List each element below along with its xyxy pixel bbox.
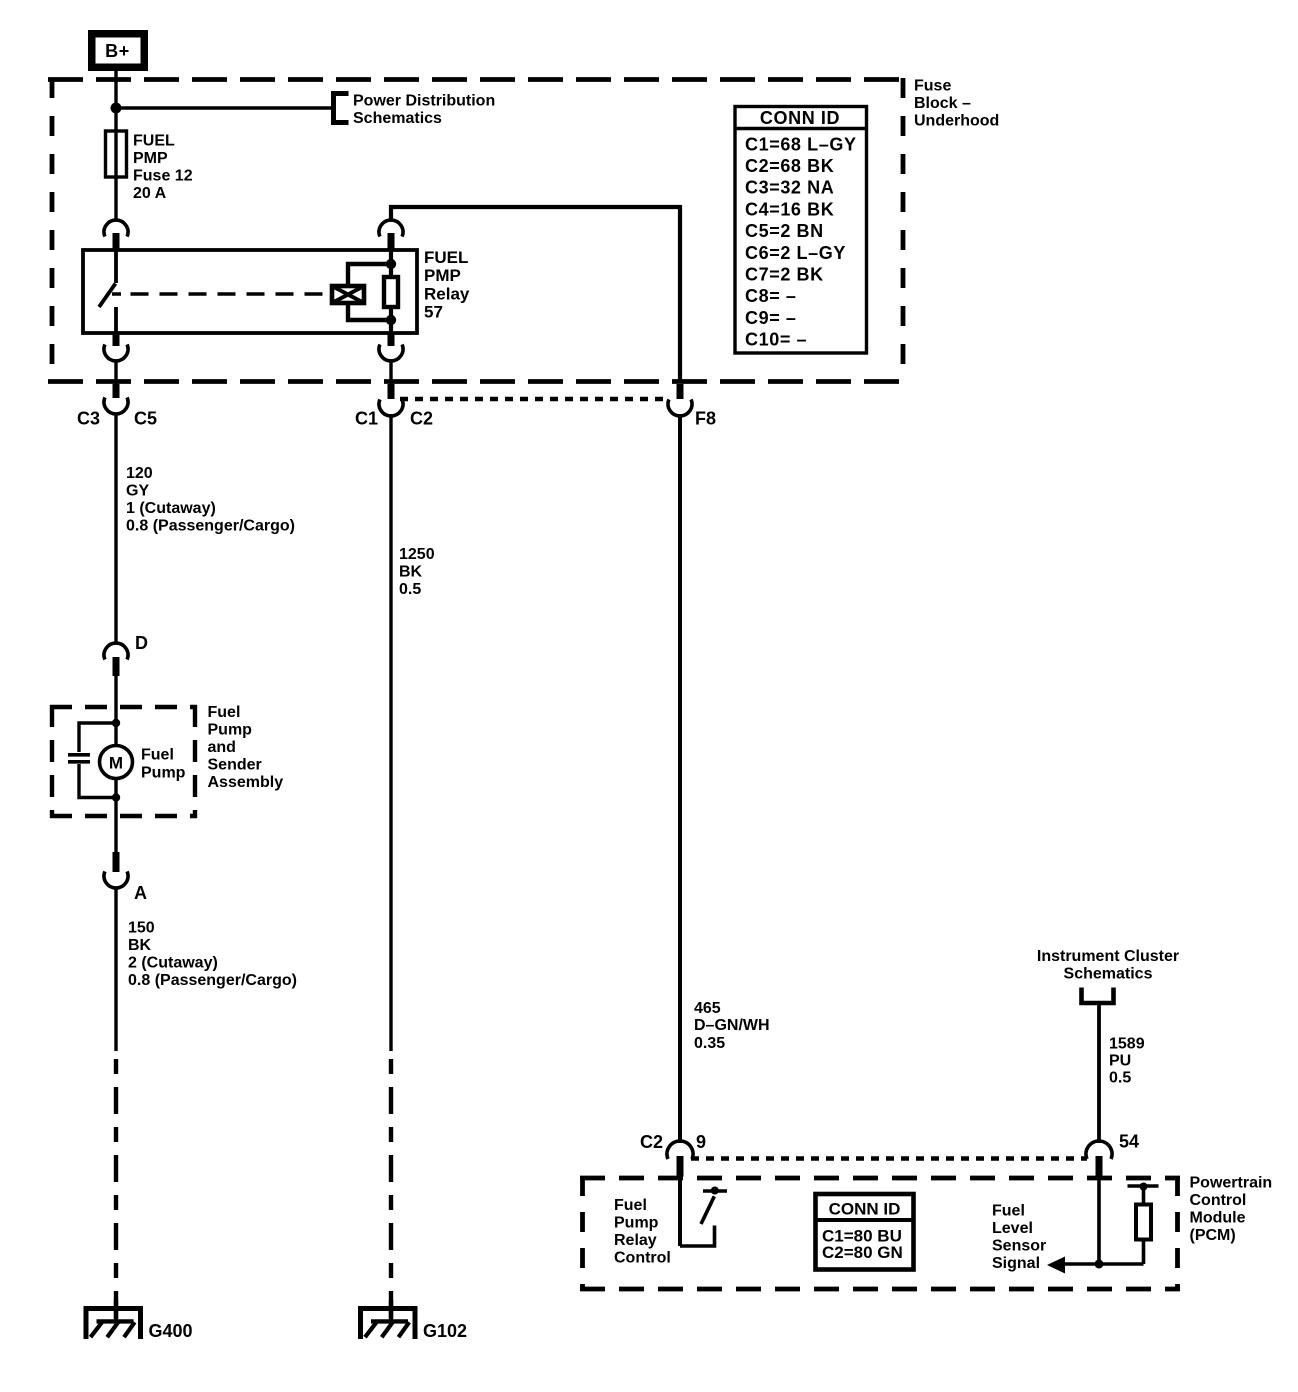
svg-text:C4=16 BK: C4=16 BK (745, 200, 834, 220)
fuse FUEL PMP Fuse 12 20A (106, 131, 127, 177)
svg-text:Fuel: Fuel (208, 704, 241, 721)
svg-text:C10= –: C10= – (745, 330, 807, 350)
svg-text:20 A: 20 A (133, 185, 167, 202)
svg-text:2 (Cutaway): 2 (Cutaway) (128, 955, 218, 972)
fuel pump and sender assembly dashed box (50, 705, 197, 818)
svg-text:Sensor: Sensor (992, 1238, 1046, 1255)
svg-text:C1=68 L–GY: C1=68 L–GY (745, 135, 857, 155)
svg-text:1250: 1250 (399, 546, 435, 563)
bracket power distribution (334, 94, 349, 123)
node pump top (112, 719, 120, 727)
svg-text:150: 150 (128, 920, 155, 937)
PCM driver switch symbol (678, 1176, 682, 1246)
svg-text:9: 9 (696, 1132, 706, 1152)
svg-text:Relay: Relay (424, 285, 470, 304)
CONN ID table fuse block (735, 107, 867, 354)
relay switch contact (114, 250, 118, 283)
svg-text:465: 465 (694, 1000, 721, 1017)
svg-text:Module: Module (1190, 1210, 1246, 1227)
relay internal resistor (384, 277, 398, 307)
svg-text:GY: GY (126, 483, 149, 500)
node coil top (386, 259, 396, 269)
node junction at power feed (111, 103, 122, 114)
svg-text:Schematics: Schematics (1064, 966, 1153, 983)
svg-text:Fuel: Fuel (992, 1203, 1025, 1220)
svg-text:0.8 (Passenger/Cargo): 0.8 (Passenger/Cargo) (126, 518, 295, 535)
connector F8 (677, 384, 684, 399)
svg-text:B+: B+ (105, 41, 130, 61)
svg-text:Signal: Signal (992, 1255, 1040, 1272)
svg-text:54: 54 (1119, 1132, 1139, 1152)
svg-text:A: A (134, 883, 147, 903)
battery terminal B+ (88, 30, 148, 71)
svg-text:C9= –: C9= – (745, 308, 797, 328)
svg-text:Control: Control (614, 1250, 671, 1267)
fuse block underhood dashed box (48, 78, 903, 382)
node signal junction (1095, 1260, 1104, 1269)
node pump bottom (112, 793, 120, 801)
svg-text:C5=2 BN: C5=2 BN (745, 221, 824, 241)
svg-text:BK: BK (399, 564, 423, 581)
svg-text:and: and (208, 739, 236, 756)
wire inside pump box (114, 723, 117, 746)
relay coil box with X (332, 286, 364, 303)
svg-text:0.5: 0.5 (399, 581, 421, 598)
svg-text:1589: 1589 (1109, 1036, 1145, 1053)
svg-text:(PCM): (PCM) (1190, 1227, 1236, 1244)
svg-text:C2=80 GN: C2=80 GN (822, 1243, 903, 1262)
svg-text:C2: C2 (640, 1132, 663, 1152)
wire C5 down to D (114, 414, 117, 643)
connector 54 into PCM (1086, 1141, 1112, 1159)
svg-text:Pump: Pump (208, 722, 253, 739)
wire A down solid (114, 888, 117, 1051)
svg-text:FUEL: FUEL (424, 248, 468, 267)
svg-text:D: D (135, 633, 148, 653)
dotted connector line C2 to F8 (400, 397, 667, 401)
svg-text:M: M (109, 754, 123, 773)
signal horizontal wire with arrow (1060, 1262, 1144, 1266)
ground G400 (84, 1306, 144, 1339)
connector C3/C5 (113, 384, 120, 398)
svg-text:C6=2 L–GY: C6=2 L–GY (745, 243, 846, 263)
svg-text:PMP: PMP (133, 150, 168, 167)
svg-text:1 (Cutaway): 1 (Cutaway) (126, 500, 216, 517)
driver blade (701, 1196, 714, 1224)
svg-text:Fuel: Fuel (141, 747, 174, 764)
capacitor branch (79, 723, 116, 752)
svg-text:0.8 (Passenger/Cargo): 0.8 (Passenger/Cargo) (128, 972, 297, 989)
svg-text:Pump: Pump (141, 765, 186, 782)
wire A down dashed to G400 (114, 1059, 118, 1321)
wire 54 down inside PCM (1097, 1176, 1101, 1264)
wire stub into G400 (114, 1300, 118, 1321)
wire C2 down (389, 414, 392, 1051)
svg-text:D–GN/WH: D–GN/WH (694, 1017, 770, 1034)
pull-up resistor wire (1142, 1186, 1146, 1264)
connector arc into relay (right pin 86) (379, 220, 403, 237)
svg-text:G102: G102 (423, 1321, 467, 1341)
svg-text:CONN ID: CONN ID (829, 1200, 901, 1219)
capacitor plates (68, 753, 90, 757)
svg-text:0.35: 0.35 (694, 1035, 725, 1052)
svg-text:Instrument Cluster: Instrument Cluster (1037, 948, 1179, 965)
svg-text:C2: C2 (410, 409, 433, 429)
svg-text:C2=68 BK: C2=68 BK (745, 156, 834, 176)
svg-text:Assembly: Assembly (208, 774, 284, 791)
PCM dashed box (580, 1176, 1180, 1291)
svg-text:CONN ID: CONN ID (760, 108, 840, 128)
svg-text:Power Distribution: Power Distribution (353, 93, 495, 110)
wire C2 down dashed to G102 (389, 1059, 393, 1321)
node coil bottom (386, 315, 396, 325)
svg-text:57: 57 (424, 303, 443, 322)
CONN ID table PCM (816, 1194, 914, 1270)
svg-text:F8: F8 (695, 409, 716, 429)
wire relay 86 up and across to F8 (391, 207, 680, 383)
dotted connector line C2/9 to 54 (691, 1156, 1087, 1160)
motor M fuel pump (100, 746, 133, 779)
svg-text:C3=32 NA: C3=32 NA (745, 178, 834, 198)
svg-text:PMP: PMP (424, 266, 461, 285)
svg-text:G400: G400 (149, 1321, 193, 1341)
svg-text:Underhood: Underhood (914, 113, 999, 130)
svg-text:C3: C3 (77, 409, 100, 429)
wire to power distribution (116, 106, 331, 109)
svg-text:Schematics: Schematics (353, 110, 442, 127)
connector C1/C2 (388, 384, 395, 399)
svg-text:Pump: Pump (614, 1215, 659, 1232)
svg-text:Fuel: Fuel (614, 1197, 647, 1214)
svg-text:Control: Control (1190, 1192, 1247, 1209)
svg-text:0.5: 0.5 (1109, 1070, 1131, 1087)
svg-text:Fuse 12: Fuse 12 (133, 168, 193, 185)
pull-up resistor (1136, 1205, 1151, 1240)
wire D to pump box (114, 676, 117, 723)
driver top contact (703, 1189, 727, 1193)
arrowhead fuel level signal (1047, 1257, 1065, 1274)
svg-text:Powertrain: Powertrain (1190, 1175, 1273, 1192)
relay actuation dashed link (112, 292, 332, 296)
svg-text:Fuse: Fuse (914, 78, 951, 95)
svg-text:Level: Level (992, 1220, 1033, 1237)
svg-text:Relay: Relay (614, 1232, 657, 1249)
connector C2/9 into PCM (667, 1141, 693, 1159)
relay internal wire right pin (389, 250, 393, 333)
connector arc into relay (left pin 30) (104, 220, 128, 237)
wire B+ down to relay (114, 71, 117, 221)
svg-text:C5: C5 (134, 409, 157, 429)
wire instrument cluster down to 54 (1097, 1003, 1101, 1143)
svg-text:120: 120 (126, 465, 153, 482)
svg-text:Sender: Sender (208, 757, 262, 774)
wire stubs to fuse block edge (114, 361, 117, 384)
svg-text:C1: C1 (355, 409, 378, 429)
svg-text:BK: BK (128, 937, 152, 954)
svg-text:PU: PU (1109, 1053, 1131, 1070)
svg-text:FUEL: FUEL (133, 133, 175, 150)
wire F8 down to C2/9 (678, 414, 682, 1143)
pull-up rail bar (1128, 1184, 1159, 1188)
svg-text:C7=2 BK: C7=2 BK (745, 265, 824, 285)
svg-text:C8= –: C8= – (745, 286, 797, 306)
relay box FUEL PMP Relay 57 (83, 250, 417, 333)
connector D (104, 643, 128, 660)
connector A (114, 818, 117, 852)
svg-text:Block –: Block – (914, 95, 971, 112)
connector arc below relay left (113, 333, 120, 346)
bracket instrument cluster (1082, 988, 1114, 1004)
ground G102 (358, 1306, 418, 1339)
relay coil branch wires (348, 264, 391, 286)
wire stub into G102 (389, 1300, 393, 1321)
connector arc below relay right (388, 333, 395, 346)
